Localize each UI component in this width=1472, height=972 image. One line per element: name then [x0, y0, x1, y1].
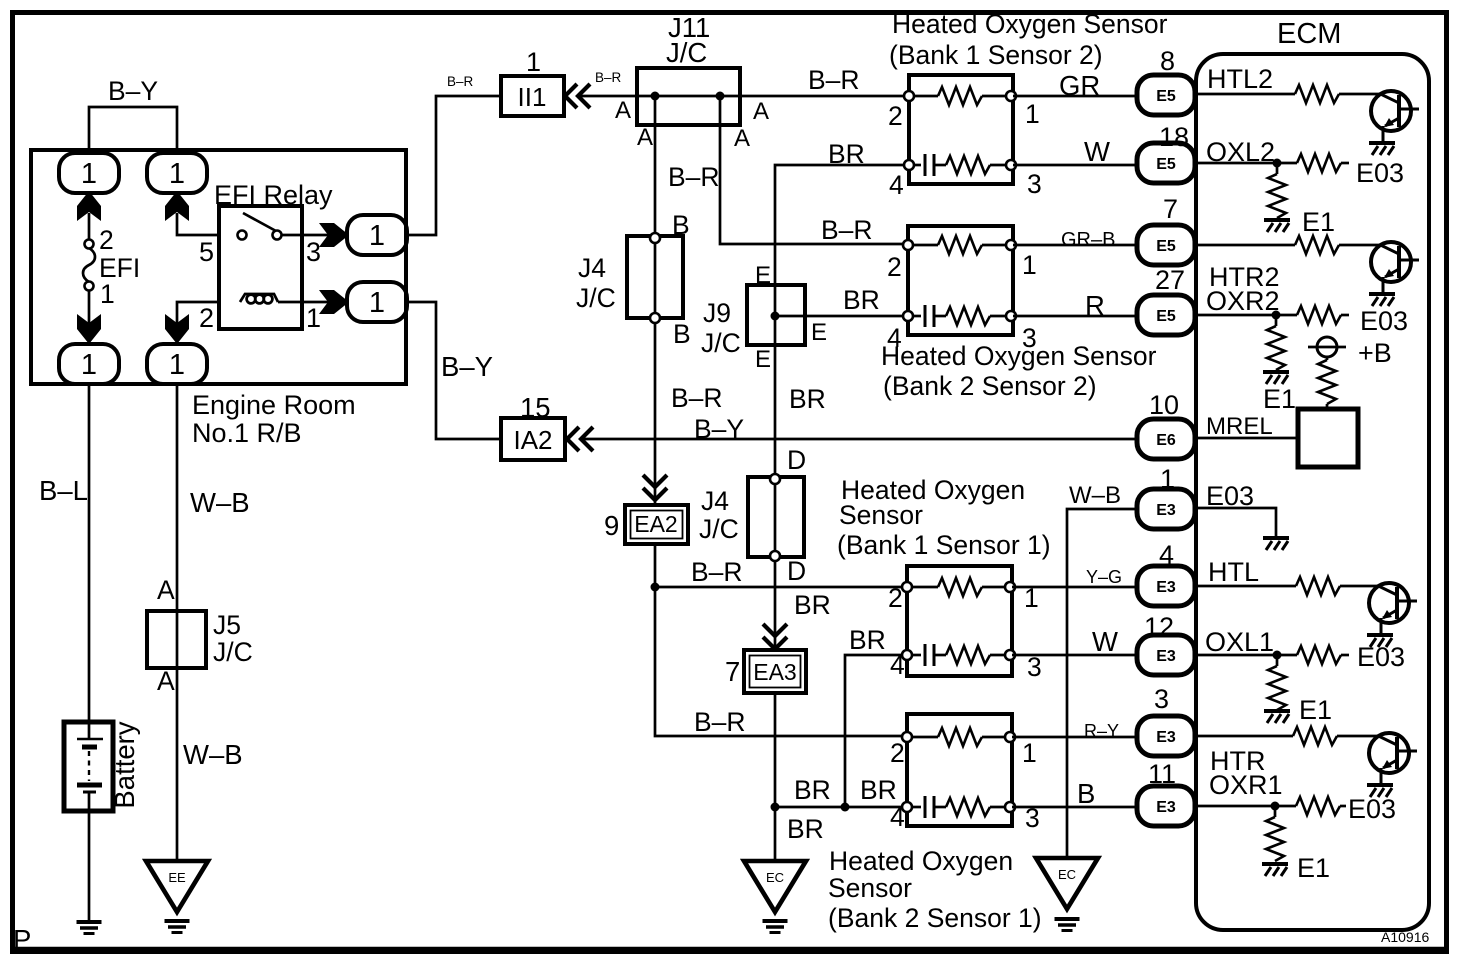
- frame border bottom extra line: [10, 947, 1449, 950]
- svg-text:BR: BR: [789, 384, 826, 414]
- svg-text:9: 9: [604, 510, 619, 541]
- pin circle J4 lower top: [770, 474, 780, 484]
- wire B-R to b1s1 pin2: [655, 586, 906, 589]
- svg-text:A: A: [157, 575, 175, 605]
- pull-down resistor OXR2: [1275, 315, 1278, 326]
- svg-text:A: A: [753, 98, 769, 125]
- wire fuse to down arrow: [88, 290, 91, 324]
- svg-text:MREL: MREL: [1206, 413, 1273, 440]
- svg-text:E03: E03: [1348, 794, 1396, 824]
- connector box EA2: [625, 505, 688, 544]
- ground triangle EC left: [744, 861, 806, 912]
- wire J9 vertical from b1s2 pin4 to EC ground: [775, 165, 908, 562]
- pull-down resistor OXR1: [1274, 806, 1277, 817]
- svg-text:2: 2: [99, 225, 114, 255]
- connector oval 1 bottom-right: [147, 344, 207, 384]
- svg-text:B–L: B–L: [39, 475, 88, 506]
- stub after resistor OXL1: [1341, 654, 1349, 657]
- wire b2s1 pin1 to oval 3: [1012, 736, 1138, 739]
- sensor B1S2 cell capacitor: [924, 154, 927, 176]
- relay switch contact left: [238, 231, 247, 240]
- svg-text:Sensor: Sensor: [828, 873, 912, 903]
- sensor B1S2 pin 4: [904, 160, 914, 170]
- wire row OXR1: [1195, 805, 1296, 808]
- svg-text:5: 5: [199, 237, 214, 267]
- stub after resistor OXR1: [1340, 805, 1346, 808]
- wire row OXR2: [1195, 314, 1297, 317]
- relay coil wire right: [278, 301, 330, 304]
- up arrow into top-left oval: [77, 191, 101, 221]
- junction dot J9: [771, 312, 780, 321]
- svg-text:B–R: B–R: [447, 74, 474, 89]
- wire row HTR: [1195, 735, 1293, 738]
- sensor B1S2 cell wire pin4-pin3: [909, 164, 921, 167]
- svg-text:7: 7: [725, 656, 740, 687]
- ground triangle EC right: [1036, 858, 1098, 909]
- wire row HTL2: [1195, 93, 1295, 96]
- sensor B1S1 pin 4: [902, 650, 912, 660]
- sensor B2S2 pin 2: [903, 240, 913, 250]
- svg-text:2: 2: [887, 252, 902, 282]
- svg-text:Heated Oxygen Sensor: Heated Oxygen Sensor: [892, 9, 1168, 39]
- svg-text:B–R: B–R: [668, 162, 720, 192]
- svg-text:8: 8: [1160, 46, 1175, 76]
- svg-text:1: 1: [169, 349, 185, 381]
- svg-text:3: 3: [1154, 684, 1169, 714]
- ground triangle EE: [146, 861, 208, 912]
- junction dot OXL2: [1273, 159, 1282, 168]
- sensor B2S1 pin 2: [902, 732, 912, 742]
- +B circle symbol: [1308, 337, 1346, 357]
- svg-text:E3: E3: [1156, 502, 1176, 519]
- relay switch contact right: [273, 231, 282, 240]
- svg-text:1: 1: [81, 349, 97, 381]
- svg-text:27: 27: [1155, 265, 1185, 295]
- svg-text:4: 4: [890, 650, 905, 680]
- EFI relay box: [219, 206, 302, 329]
- relay coil wire left: [177, 302, 221, 324]
- wire into II1 from J11: [580, 95, 637, 98]
- svg-text:18: 18: [1159, 122, 1189, 152]
- sensor B1S2 heater wire pin2-pin1: [909, 95, 938, 98]
- sensor B1S1 cell wire pin4-pin3: [907, 654, 921, 657]
- svg-text:A: A: [637, 124, 653, 151]
- wire arrow to fuse: [88, 213, 91, 240]
- sensor B2S2 cell wire pin4-pin3: [908, 315, 921, 318]
- svg-text:IA2: IA2: [513, 425, 552, 455]
- svg-text:Battery: Battery: [109, 721, 140, 808]
- svg-text:BR: BR: [794, 590, 831, 620]
- stub after resistor OXR2: [1341, 314, 1349, 317]
- junction dot J11 right: [716, 92, 725, 101]
- svg-text:1: 1: [1022, 738, 1037, 768]
- svg-text:E1: E1: [1263, 384, 1296, 414]
- svg-text:Sensor: Sensor: [839, 500, 923, 530]
- svg-text:B–Y: B–Y: [694, 414, 744, 444]
- sensor B2S2 pin 4: [903, 311, 913, 321]
- svg-text:EA3: EA3: [753, 659, 796, 685]
- svg-text:Heated Oxygen: Heated Oxygen: [829, 846, 1013, 876]
- chevron arrows into IA2: [567, 427, 593, 451]
- svg-text:E: E: [755, 346, 771, 373]
- svg-text:GR–B: GR–B: [1061, 229, 1115, 251]
- sensor B1S1 cell resistor: [946, 646, 990, 664]
- svg-text:B–R: B–R: [808, 65, 860, 95]
- svg-text:4: 4: [889, 170, 904, 200]
- svg-text:A: A: [734, 125, 750, 152]
- wire to transistor T4: [1337, 735, 1379, 738]
- wire B-L battery: [88, 383, 91, 723]
- resistor below +B: [1326, 357, 1329, 360]
- ground OXR1: [1262, 864, 1288, 876]
- svg-text:A: A: [615, 97, 631, 124]
- svg-text:No.1 R/B: No.1 R/B: [192, 418, 302, 448]
- wire B-Y from IA2 to ECM MREL oval: [582, 438, 1137, 441]
- svg-text:E1: E1: [1297, 853, 1330, 883]
- svg-text:II1: II1: [518, 82, 547, 112]
- sensor B2S2 pin 3: [1006, 311, 1016, 321]
- svg-text:D: D: [787, 556, 806, 586]
- junction dot BR riser bottom: [841, 803, 850, 812]
- sensor B2S1 heater resistor: [938, 728, 982, 746]
- svg-text:1: 1: [1025, 99, 1040, 129]
- wire from J11 right dot down to sensor b2s2 pin2: [720, 96, 908, 244]
- svg-text:E03: E03: [1360, 306, 1408, 336]
- right arrow into output oval bottom: [319, 290, 349, 314]
- wire battery to ground: [88, 810, 91, 921]
- sensor B2S2 heater wire pin2-pin1: [908, 244, 938, 247]
- connector oval E6 pin10: [1137, 419, 1195, 459]
- wire row E03 to ground: [1195, 508, 1276, 537]
- ground EC left lines: [763, 921, 788, 933]
- resistor row HTL2: [1295, 85, 1339, 103]
- junction box J9: [747, 285, 805, 345]
- svg-text:B–R: B–R: [694, 707, 746, 737]
- svg-text:+B: +B: [1358, 338, 1392, 368]
- junction dot EA3 bottom: [771, 803, 780, 812]
- chevron arrows into II1: [565, 84, 590, 108]
- svg-text:J/C: J/C: [701, 328, 741, 358]
- sensor B2S1 cell capacitor: [924, 796, 927, 818]
- ECM box: [1196, 54, 1429, 930]
- svg-text:BR: BR: [787, 814, 824, 844]
- wire row OXL2: [1195, 162, 1297, 165]
- svg-text:BR: BR: [843, 285, 880, 315]
- wire BR riser from b1s1 pin4: [845, 655, 906, 807]
- pin circle J4 bottom: [650, 313, 660, 323]
- svg-text:1: 1: [81, 158, 97, 190]
- svg-text:B–Y: B–Y: [108, 76, 158, 106]
- svg-text:E1: E1: [1299, 695, 1332, 725]
- ground EC right lines: [1055, 919, 1080, 931]
- connector oval 1 bottom-left: [59, 344, 119, 384]
- connector oval E5 pin8: [1137, 75, 1195, 115]
- wire to transistor T1: [1339, 93, 1381, 96]
- wire B-Y riser to IA2: [404, 302, 501, 439]
- svg-text:ECM: ECM: [1277, 18, 1341, 50]
- junction dot OXR2: [1272, 311, 1281, 320]
- svg-text:D: D: [787, 445, 806, 475]
- sensor B2S1 heater wire pin2-pin1: [907, 736, 938, 739]
- wire EA2 down to corner and to b2s1 pin2: [655, 544, 906, 736]
- sensor B2S1 pin 3: [1005, 802, 1015, 812]
- sensor B1S1 pin 2: [902, 582, 912, 592]
- svg-text:4: 4: [1159, 540, 1174, 570]
- svg-text:Y–G: Y–G: [1086, 567, 1122, 587]
- svg-text:1: 1: [169, 158, 185, 190]
- svg-text:HTL2: HTL2: [1207, 64, 1273, 94]
- connector oval E5 pin7: [1137, 225, 1195, 265]
- wire row OXL1: [1195, 654, 1297, 657]
- wire J9 to b2s2 pin4: [775, 315, 908, 318]
- ground OXL2: [1264, 220, 1290, 232]
- sensor B1S1 box: [907, 566, 1012, 676]
- svg-text:E5: E5: [1156, 156, 1176, 173]
- battery: [64, 722, 113, 811]
- connector oval E3 pin12: [1137, 635, 1195, 675]
- connector oval E5 pin18: [1137, 143, 1195, 183]
- ground EE lines: [165, 921, 190, 933]
- svg-text:E5: E5: [1156, 88, 1176, 105]
- junction dot below EA2: [651, 583, 660, 592]
- resistor row OXR2: [1297, 306, 1341, 324]
- svg-text:EC: EC: [766, 870, 784, 885]
- svg-text:3: 3: [306, 237, 321, 267]
- svg-text:J4: J4: [578, 253, 606, 283]
- wire b1s1 pin1 to oval 4: [1012, 586, 1140, 589]
- svg-text:BR: BR: [828, 139, 865, 169]
- ground battery: [77, 922, 102, 934]
- sensor B2S2 cell capacitor: [924, 305, 927, 327]
- svg-text:BR: BR: [860, 775, 897, 805]
- sensor B1S1 heater resistor: [938, 578, 982, 596]
- ground T2: [1369, 294, 1395, 306]
- svg-text:10: 10: [1149, 390, 1179, 420]
- down chevron arrows into EA3: [763, 624, 787, 649]
- transistor T4: [1369, 733, 1417, 784]
- sensor B1S2 pin 1: [1006, 91, 1016, 101]
- svg-text:E03: E03: [1356, 158, 1404, 188]
- svg-text:E3: E3: [1156, 729, 1176, 746]
- svg-text:B: B: [673, 319, 691, 349]
- wire b2s2 pin1 to oval 7: [1013, 244, 1138, 247]
- svg-text:3: 3: [1027, 169, 1042, 199]
- connector oval E3 pin11: [1137, 786, 1195, 826]
- svg-text:HTL: HTL: [1208, 557, 1259, 587]
- sensor B2S2 heater resistor: [938, 236, 982, 254]
- wire row HTL: [1195, 585, 1296, 588]
- svg-text:E5: E5: [1156, 238, 1176, 255]
- wire b2s2 pin3 to oval 27: [1013, 315, 1138, 318]
- sensor B2S1 box: [907, 714, 1012, 826]
- sensor B2S2 box: [908, 226, 1013, 335]
- fuse EFI: [83, 240, 95, 291]
- svg-text:J9: J9: [703, 298, 731, 328]
- sensor B1S1 pin 1: [1005, 582, 1015, 592]
- svg-text:1: 1: [526, 47, 541, 77]
- svg-text:1: 1: [369, 287, 385, 319]
- sensor B2S1 cell resistor: [946, 798, 990, 816]
- svg-text:B: B: [1077, 778, 1095, 809]
- svg-text:E3: E3: [1156, 799, 1176, 816]
- sensor B2S2 cell resistor: [946, 307, 990, 325]
- svg-text:EC: EC: [1058, 867, 1076, 882]
- svg-text:OXL1: OXL1: [1205, 627, 1274, 657]
- wire J4 lower to EA3: [774, 561, 777, 650]
- svg-text:E03: E03: [1206, 481, 1254, 511]
- relay coil: [240, 294, 278, 303]
- pull-down resistor OXL2: [1276, 163, 1279, 174]
- svg-text:W: W: [1084, 136, 1110, 167]
- stub after resistor OXL2: [1341, 162, 1349, 165]
- sensor B1S2 cell resistor: [946, 156, 990, 174]
- svg-text:GR: GR: [1059, 70, 1100, 101]
- pin circle J4 lower bottom: [770, 551, 780, 561]
- svg-text:W–B: W–B: [1069, 482, 1121, 509]
- connector oval 1 output bottom: [347, 282, 407, 322]
- connector box II1: [501, 76, 564, 116]
- svg-text:BR: BR: [794, 775, 831, 805]
- svg-text:E6: E6: [1156, 432, 1176, 449]
- ground OXL1: [1264, 711, 1290, 723]
- junction box J4 upper: [627, 236, 683, 318]
- svg-text:B–R: B–R: [595, 70, 622, 85]
- sensor B1S1 cell capacitor: [924, 644, 927, 666]
- sensor B2S2 pin 1: [1006, 240, 1016, 250]
- svg-text:E3: E3: [1156, 648, 1176, 665]
- sensor B2S1 pin 1: [1005, 732, 1015, 742]
- ground T4: [1367, 785, 1393, 797]
- svg-text:J/C: J/C: [213, 637, 253, 667]
- relay switch blade: [243, 213, 276, 231]
- wire B-R riser to II1: [404, 96, 501, 235]
- svg-text:R: R: [1085, 290, 1105, 321]
- wire EA3 down to EC ground: [774, 693, 777, 862]
- svg-text:(Bank 2 Sensor 2): (Bank 2 Sensor 2): [883, 371, 1097, 401]
- sensor B1S2 pin 2: [904, 91, 914, 101]
- svg-text:E1: E1: [1302, 207, 1335, 237]
- svg-text:A: A: [157, 666, 175, 696]
- wire to transistor T3: [1340, 585, 1379, 588]
- svg-text:(Bank 2 Sensor 1): (Bank 2 Sensor 1): [828, 903, 1042, 933]
- relay pin5 wire: [177, 213, 221, 235]
- svg-text:B–Y: B–Y: [441, 351, 493, 382]
- MREL relay square box: [1298, 409, 1358, 467]
- connector oval 1 top-left: [59, 153, 119, 193]
- svg-text:Engine Room: Engine Room: [192, 390, 356, 420]
- sensor B1S1 pin 3: [1005, 650, 1015, 660]
- pin circle J4 top: [650, 233, 660, 243]
- wire W-B from E3 no1 oval down to EC ground: [1067, 509, 1137, 859]
- svg-text:R–Y: R–Y: [1084, 721, 1119, 741]
- wire B-Y loop top: [89, 107, 177, 155]
- svg-text:EA2: EA2: [634, 511, 677, 537]
- transistor T3: [1369, 583, 1417, 634]
- wire vertical B-R from J11 to EA2: [654, 96, 657, 505]
- svg-text:W–B: W–B: [190, 487, 250, 518]
- connector oval E3 pin1: [1137, 489, 1195, 529]
- svg-text:4: 4: [890, 802, 905, 832]
- resistor row HTR: [1293, 727, 1337, 745]
- wire W-B from oval to J5: [176, 383, 179, 862]
- svg-text:J/C: J/C: [666, 37, 707, 68]
- svg-text:(Bank 1 Sensor 1): (Bank 1 Sensor 1): [837, 530, 1051, 560]
- down arrow into bottom-left oval: [77, 314, 101, 344]
- svg-text:1: 1: [1160, 464, 1175, 494]
- svg-text:1: 1: [369, 220, 385, 252]
- junction box J4 lower: [748, 477, 804, 557]
- svg-text:B–R: B–R: [821, 215, 873, 245]
- svg-text:1: 1: [306, 303, 321, 333]
- junction dot OXL1: [1273, 651, 1282, 660]
- svg-text:(Bank 1 Sensor 2): (Bank 1 Sensor 2): [889, 40, 1103, 70]
- svg-text:J5: J5: [213, 610, 241, 640]
- svg-text:2: 2: [199, 303, 214, 333]
- down arrow into bottom-right oval: [165, 314, 189, 344]
- svg-text:Heated Oxygen Sensor: Heated Oxygen Sensor: [881, 341, 1157, 371]
- connector oval E3 pin3: [1137, 716, 1195, 756]
- resistor row HTL: [1296, 577, 1340, 595]
- svg-text:11: 11: [1148, 759, 1176, 789]
- svg-text:1: 1: [100, 279, 115, 309]
- sensor B1S2 pin 3: [1006, 160, 1016, 170]
- svg-text:J/C: J/C: [576, 283, 616, 313]
- junction dot J11 left: [651, 92, 660, 101]
- pull-down resistor OXL1: [1276, 655, 1279, 666]
- sensor B2S1 pin 4: [902, 802, 912, 812]
- svg-text:E03: E03: [1357, 642, 1405, 672]
- svg-text:E3: E3: [1156, 579, 1176, 596]
- ground row E03: [1263, 538, 1289, 550]
- wire through J11 to sensor pin2: [637, 95, 909, 98]
- sensor B1S1 heater wire pin2-pin1: [907, 586, 938, 589]
- resistor row OXL1: [1297, 646, 1341, 664]
- junction box J5: [147, 611, 206, 668]
- wire b1s1 pin3 to oval 12: [1012, 654, 1140, 657]
- svg-text:B–R: B–R: [671, 383, 723, 413]
- svg-text:2: 2: [888, 583, 903, 613]
- resistor row HTR2: [1295, 236, 1339, 254]
- svg-text:W–B: W–B: [183, 739, 243, 770]
- down chevron arrows into EA2: [643, 475, 667, 500]
- svg-text:3: 3: [1027, 652, 1042, 682]
- Engine Room No.1 R/B box: [31, 150, 406, 384]
- sensor B1S2 heater resistor: [938, 87, 982, 105]
- svg-text:2: 2: [890, 738, 905, 768]
- svg-text:E: E: [811, 319, 827, 346]
- svg-text:EE: EE: [168, 870, 186, 885]
- relay pin3 wire: [281, 234, 330, 237]
- wire row HTR2: [1195, 244, 1295, 247]
- connector oval E5 pin27: [1137, 295, 1195, 335]
- sensor B2S1 cell wire pin4-pin3: [907, 806, 921, 809]
- wire b1s2 pin3 to oval 18: [1013, 164, 1138, 167]
- connector box IA2: [501, 418, 565, 460]
- svg-text:7: 7: [1163, 194, 1178, 224]
- wire b1s2 pin1 to oval 8: [1013, 95, 1138, 98]
- svg-text:OXR1: OXR1: [1209, 770, 1283, 800]
- connector box EA3: [744, 650, 806, 693]
- svg-text:E5: E5: [1156, 308, 1176, 325]
- svg-text:J/C: J/C: [699, 514, 739, 544]
- sensor B1S2 box: [909, 75, 1013, 184]
- svg-text:2: 2: [888, 101, 903, 131]
- wire row MREL: [1195, 437, 1298, 440]
- svg-text:12: 12: [1144, 612, 1174, 642]
- svg-text:P: P: [13, 924, 31, 955]
- svg-text:BR: BR: [849, 625, 886, 655]
- svg-text:J4: J4: [701, 486, 729, 516]
